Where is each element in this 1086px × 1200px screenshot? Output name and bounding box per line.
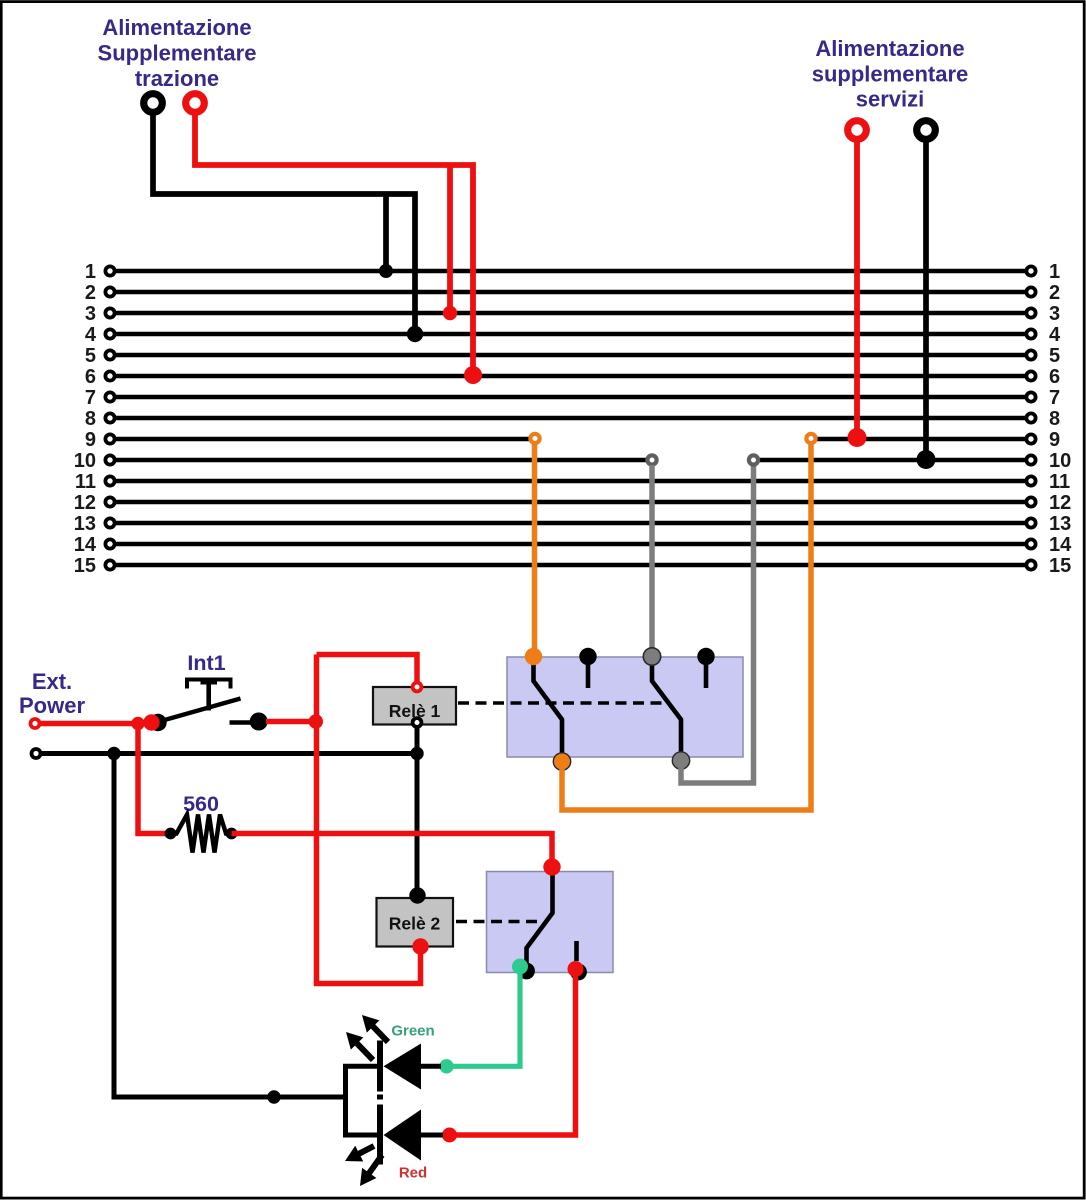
wire: red branch to row 3 [447,167,453,313]
wire: green relay2 to green LED [452,970,520,1066]
svg-text:4: 4 [85,324,97,346]
bus row 8 [85,408,1060,430]
junction: black dot on LED return [267,1090,280,1103]
wire: red switch to junction [266,719,318,725]
svg-text:Relè 2: Relè 2 [389,914,441,934]
svg-text:supplementare: supplementare [812,62,969,87]
dashed actuation link Rele2 [456,920,541,923]
Rele1 top pin (red ring) [413,683,422,692]
relay1 pole1 switch arm [534,659,563,760]
wire: red from trazione jack to bus [195,112,473,375]
svg-text:8: 8 [85,408,96,430]
switch Int1 right stub [230,720,252,725]
wire: orange row9 to relay1 common pin [532,444,538,653]
wire: red vertical trunk and bottom loop to Rele2 coil [317,655,421,984]
label: Alimentazione supplementare servizi [812,36,969,112]
bus row 9 [85,429,1060,451]
bus row 4 [85,324,1061,346]
svg-text:2: 2 [85,282,96,304]
svg-text:13: 13 [1049,513,1071,535]
relay2 bottom-right pin black [570,964,587,981]
green LED emission arrows [346,1015,388,1060]
svg-text:9: 9 [1049,429,1060,451]
relay contact box K2 (lavender) [487,872,614,973]
terminal: servizi red banana jack [848,121,867,140]
LED D2 red [380,1105,443,1165]
node: orange terminal on row 9 right [806,434,815,443]
relay2 bottom-right pin red [568,961,584,977]
svg-text:servizi: servizi [856,87,925,112]
relay contact box K1 (lavender) [507,657,743,757]
junction: red dot on row 3 [443,306,457,320]
relay1 pin1 orange dot [525,648,542,665]
LED D1 green [380,1041,441,1092]
bus row 14 [74,534,1072,556]
relay1 pole2 switch arm [652,659,681,759]
wire: gray row10 to relay1 second pole common [649,465,655,652]
svg-text:6: 6 [1049,366,1060,388]
wire: red from servizi jack to row 9 [854,139,860,437]
relay2 switch arm [527,869,553,963]
wire: red down-branch to resistor [138,724,167,834]
svg-text:trazione: trazione [135,66,219,91]
bus row 12 [74,492,1072,514]
svg-text:3: 3 [1049,303,1060,325]
bus row 15 [74,555,1072,577]
svg-text:9: 9 [85,429,96,451]
Rele1 bottom pin (black ring) [413,718,422,727]
label: Alimentazione Supplementare trazione [98,15,257,91]
junction: black dot left [107,747,120,760]
resistor 560 body [165,815,238,853]
relay1 pin2 stub (NO contact) [586,660,591,688]
relay2 NO stub [574,941,579,961]
Rele2 bottom pin red dot [412,938,428,954]
junction: green dot at LED anode [439,1059,453,1073]
bus row 2 [85,282,1060,304]
svg-text:13: 13 [74,513,96,535]
bus row 10 [74,450,1072,472]
wire: black from trazione jack to bus [153,112,415,334]
cathode bar gap segment [377,1095,383,1100]
terminal: trazione red banana jack [186,94,205,113]
svg-text:6: 6 [85,366,96,388]
terminal: trazione black banana jack [144,94,163,113]
junction: red dot at LED anode [442,1128,457,1143]
switch Int1 lever [161,699,241,722]
svg-text:7: 7 [1049,387,1060,409]
svg-text:1: 1 [1049,261,1060,283]
wire: black from servizi jack to row 10 [923,139,929,459]
wire: LED cathode bracket [346,1066,378,1135]
dashed actuation link Rele1 [458,701,668,704]
bus row 3 [85,303,1060,325]
bus row 1 [85,261,1060,283]
relay1 pin2 black dot [579,648,596,665]
node: orange terminal on row 9 left [530,434,539,443]
relay2 bottom-left pin black [518,963,535,980]
svg-text:Int1: Int1 [187,651,225,675]
switch Int1 actuator stem [206,681,211,711]
svg-text:Alimentazione: Alimentazione [102,15,251,40]
relay coil Rele 1 [373,687,456,725]
svg-text:11: 11 [75,471,96,493]
terminal: ext power black [32,749,41,758]
bus row 7 [85,387,1060,409]
svg-text:10: 10 [74,450,96,472]
junction: black dot under Rele1 [410,747,423,760]
svg-text:Green: Green [391,1023,434,1040]
switch Int1 actuator crossbar [201,680,218,685]
svg-text:15: 15 [1049,555,1071,577]
switch Int1 pushbutton bracket [187,680,231,689]
junction: black dot Rele2 top pin [409,887,425,903]
relay1 pin4 black dot [697,648,714,665]
wire: black bus down to Rele2 coil [415,754,420,894]
label: Ext. Power [19,669,85,718]
relay1 pole2 bottom pin gray dot [672,752,689,769]
bus row 6 [85,366,1060,388]
relay2 bottom-left pin green [512,959,528,975]
terminal: servizi black banana jack [917,121,936,140]
junction: red dot resistor branch [131,717,144,730]
svg-text:4: 4 [1049,324,1061,346]
svg-text:Power: Power [19,693,85,718]
junction: red dot at switch node [309,714,323,728]
svg-text:12: 12 [1049,492,1071,514]
red LED emission arrows [345,1146,382,1186]
wire: red resistor to relay2 switch pin [232,834,553,864]
wire: gray relay1 pole2 out to row 10 right [681,465,754,783]
wire: black branch to row 1 [383,196,389,271]
relay1 pin4 stub (NO contact) [704,660,709,688]
svg-text:14: 14 [1049,534,1072,556]
bus row 11 [75,471,1070,493]
svg-text:Alimentazione: Alimentazione [815,36,964,61]
bus row 5 [85,345,1060,367]
relay1 pin3 gray dot [643,648,660,665]
switch Int1 left contact red [143,714,159,730]
wire: black ext power bus [41,751,417,756]
bus row 13 [74,513,1072,535]
svg-text:11: 11 [1049,471,1070,493]
junction: black dot on row 1 [379,264,393,278]
switch Int1 left contact black [149,714,166,731]
svg-text:5: 5 [1049,345,1060,367]
svg-text:Red: Red [399,1165,427,1182]
svg-text:Supplementare: Supplementare [98,41,257,66]
relay2 top pin red dot [543,858,560,875]
svg-text:2: 2 [1049,282,1060,304]
relay1 pole1 bottom pin orange dot [553,753,570,770]
switch Int1 right contact black dot [250,713,268,731]
svg-text:10: 10 [1049,450,1071,472]
svg-text:15: 15 [74,555,96,577]
node: gray terminal on row 10 left [647,455,656,464]
junction: black dot on row 10 [917,450,936,469]
wire: red top loop to Rele1 coil [317,655,418,684]
node: gray terminal on row 10 right [749,455,758,464]
svg-text:5: 5 [85,345,96,367]
svg-text:8: 8 [1049,408,1060,430]
junction: red dot on row 6 [464,366,482,384]
wire: red ext power to switch [40,721,150,727]
junction: black dot on row 4 [407,326,423,342]
wire: orange relay1 pole1 out to row 9 right [562,444,811,810]
svg-text:12: 12 [74,492,96,514]
wire: black return from bus to LEDs [114,754,346,1098]
terminal: ext power red [31,719,40,728]
wire: black Rele1 to bus [415,727,420,754]
svg-text:Ext.: Ext. [32,669,72,694]
svg-text:3: 3 [85,303,96,325]
svg-text:1: 1 [85,261,96,283]
wire: red relay2 to red LED [456,973,576,1135]
junction: red dot on row 9 [848,428,867,447]
relay coil Rele 2 [377,898,454,947]
svg-text:7: 7 [85,387,96,409]
svg-text:14: 14 [74,534,97,556]
